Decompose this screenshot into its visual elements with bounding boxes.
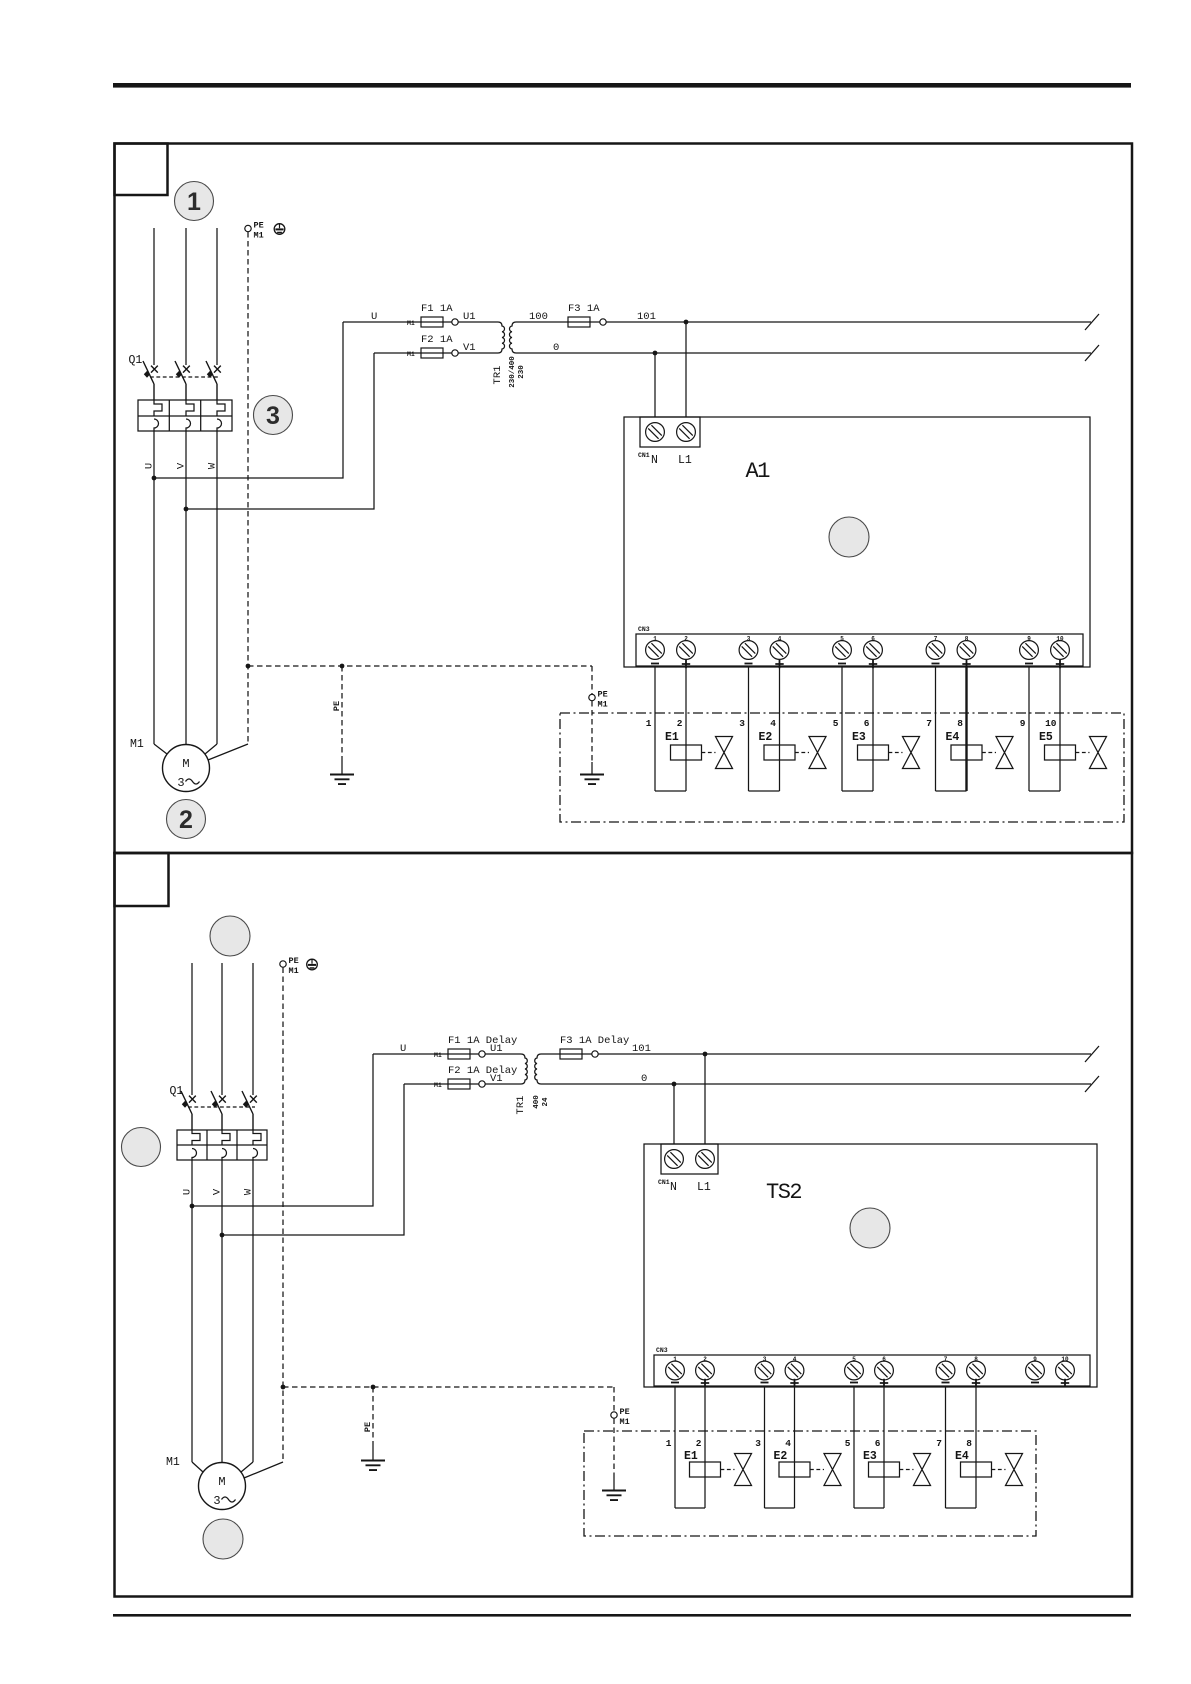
node U tap <box>152 476 157 481</box>
wire PE below node dashed <box>591 701 593 762</box>
wire terminal 6 drop <box>883 1386 885 1508</box>
TS2 supply terminal block <box>661 1144 718 1174</box>
svg-text:F2 1A Delay: F2 1A Delay <box>448 1065 517 1077</box>
svg-text:10: 10 <box>1061 1356 1069 1363</box>
wire motor lead 1 <box>192 1462 203 1472</box>
terminal 7 screw <box>926 636 945 664</box>
wire phase L1 lower <box>191 1160 193 1462</box>
ground symbol PE <box>361 1461 385 1471</box>
svg-text:0: 0 <box>553 342 559 354</box>
wire terminal 8 drop <box>975 1386 977 1508</box>
node V tap <box>220 1233 225 1238</box>
svg-text:7: 7 <box>936 1438 942 1449</box>
page bottom rule <box>113 1614 1131 1617</box>
terminal 1 screw <box>666 1356 685 1383</box>
valve E3 <box>900 1454 931 1486</box>
valve E1 <box>702 737 733 769</box>
svg-text:5: 5 <box>833 718 839 729</box>
svg-text:V1: V1 <box>463 342 476 354</box>
terminal N screw <box>646 423 665 442</box>
svg-text:3: 3 <box>177 776 184 790</box>
wire motor lead 3 <box>205 744 217 754</box>
terminal 5 screw <box>845 1356 864 1383</box>
wire motor lead 3 <box>241 1462 253 1472</box>
svg-text:M1: M1 <box>130 738 144 751</box>
svg-text:3: 3 <box>739 718 745 729</box>
terminal after F3 <box>600 319 606 325</box>
relay E5 <box>1029 731 1076 791</box>
wire PE ground stub <box>591 762 593 774</box>
svg-text:E4: E4 <box>955 1450 969 1463</box>
svg-text:9: 9 <box>1033 1356 1037 1363</box>
terminal 5 screw <box>833 636 852 664</box>
terminal after F3 <box>592 1051 598 1057</box>
svg-text:8: 8 <box>957 718 963 729</box>
node PE M1 valves <box>611 1407 630 1427</box>
wire PE below node dashed <box>613 1419 615 1479</box>
svg-text:M1: M1 <box>407 351 415 358</box>
svg-text:3: 3 <box>747 636 751 643</box>
wire PE dashed vertical <box>282 968 284 1463</box>
svg-text:10: 10 <box>1045 718 1057 729</box>
wire PE drop dashed <box>372 1387 374 1445</box>
fuse F1 1A <box>421 303 453 327</box>
breaker Q1 pole 1 <box>143 361 158 400</box>
svg-text:N: N <box>670 1181 677 1194</box>
terminal 8 screw <box>957 636 976 669</box>
controller TS2 box <box>644 1144 1097 1387</box>
svg-text:Q1: Q1 <box>129 354 143 367</box>
A1 supply terminal block <box>640 417 700 447</box>
svg-text:1: 1 <box>646 718 652 729</box>
svg-text:101: 101 <box>632 1043 651 1055</box>
overload element 1 <box>192 1130 200 1161</box>
title corner box 1 <box>115 144 168 196</box>
terminal 6 screw <box>875 1356 894 1387</box>
svg-text:F3 1A Delay: F3 1A Delay <box>560 1035 629 1047</box>
svg-text:PE: PE <box>363 1422 373 1432</box>
wire PE dashed horizontal <box>248 665 592 667</box>
motor M1 <box>163 745 210 792</box>
svg-text:U1: U1 <box>490 1043 503 1055</box>
callout circle blank top <box>210 916 250 956</box>
overload element 2 <box>222 1130 230 1161</box>
node 101 junction <box>703 1052 708 1057</box>
svg-text:CN3: CN3 <box>638 626 650 633</box>
svg-text:8: 8 <box>966 1438 972 1449</box>
terminal U1 <box>479 1043 503 1057</box>
overload element 2 <box>186 400 194 431</box>
svg-text:230/400: 230/400 <box>509 356 517 388</box>
terminal U1 <box>452 311 476 325</box>
svg-text:7: 7 <box>944 1356 948 1363</box>
wire terminal 9 drop <box>1028 666 1030 791</box>
svg-text:230: 230 <box>518 365 526 379</box>
svg-text:E2: E2 <box>759 731 773 744</box>
sheet frame 2 <box>115 853 1133 1597</box>
wire N drop to A1 <box>654 353 656 417</box>
svg-text:E2: E2 <box>774 1450 788 1463</box>
svg-text:U: U <box>400 1043 406 1055</box>
svg-text:4: 4 <box>770 718 776 729</box>
terminal N screw <box>665 1150 684 1169</box>
svg-text:M1: M1 <box>598 700 608 710</box>
relay E1 <box>655 731 702 791</box>
svg-text:E4: E4 <box>946 731 960 744</box>
wire phase L3 top <box>252 963 254 1095</box>
svg-text:6: 6 <box>871 636 875 643</box>
terminal 4 screw <box>770 636 789 669</box>
svg-text:A1: A1 <box>746 459 771 484</box>
TS2 output terminal strip <box>654 1355 1090 1386</box>
svg-text:M: M <box>218 1475 225 1489</box>
relay E2 <box>749 731 796 791</box>
wire phase L1 top <box>153 228 155 365</box>
svg-text:10: 10 <box>1056 636 1064 643</box>
terminal 3 screw <box>755 1356 774 1383</box>
svg-text:M1: M1 <box>620 1417 630 1427</box>
fuse F1 1A Delay <box>448 1035 517 1059</box>
terminal 2 screw <box>677 636 696 669</box>
svg-text:5: 5 <box>845 1438 851 1449</box>
wire U tap <box>192 1054 373 1206</box>
knob circle A1 <box>829 517 869 557</box>
svg-text:3: 3 <box>763 1356 767 1363</box>
fuse F2 1A Delay <box>448 1065 517 1089</box>
svg-text:8: 8 <box>965 636 969 643</box>
svg-text:L1: L1 <box>697 1181 711 1194</box>
wire terminal 3 drop <box>748 666 750 791</box>
wire terminal 5 drop <box>853 1386 855 1508</box>
terminal 6 screw <box>864 636 883 669</box>
svg-text:PE: PE <box>598 690 608 700</box>
svg-text:CN1: CN1 <box>658 1179 670 1186</box>
svg-text:0: 0 <box>641 1073 647 1085</box>
terminal 3 screw <box>739 636 758 664</box>
breaker Q1 pole 2 <box>175 361 190 400</box>
terminal 2 screw <box>696 1356 715 1387</box>
overload element 3 <box>253 1130 261 1161</box>
wire terminal 1 drop <box>654 666 656 791</box>
node PE M1 valves <box>589 690 608 710</box>
earth symbol top <box>274 224 285 235</box>
page top rule <box>113 83 1131 88</box>
relay E4 <box>946 1450 992 1508</box>
wire V to fuse F2 <box>404 1083 521 1085</box>
valve enclosure dash-dot box <box>584 1431 1036 1536</box>
svg-text:M: M <box>182 757 189 771</box>
svg-text:6: 6 <box>864 718 870 729</box>
wire phase L2 lower <box>185 431 187 745</box>
svg-text:2: 2 <box>696 1438 702 1449</box>
node 101 junction <box>684 320 689 325</box>
svg-text:5: 5 <box>840 636 844 643</box>
terminal 10 screw <box>1056 1356 1075 1387</box>
svg-text:400: 400 <box>533 1095 541 1109</box>
relay E3 <box>842 731 889 791</box>
wire motor PE lead <box>208 744 248 760</box>
break mark 101 <box>1085 1046 1099 1062</box>
node PE M1 <box>245 221 264 241</box>
svg-text:CN1: CN1 <box>638 452 650 459</box>
wire phase L3 lower <box>252 1160 254 1462</box>
fuse F2 1A <box>421 334 453 358</box>
breaker mechanical link <box>188 1106 255 1108</box>
svg-text:E5: E5 <box>1039 731 1053 744</box>
svg-text:E3: E3 <box>852 731 866 744</box>
node PE junction 1 <box>246 664 251 669</box>
motor M1 <box>199 1463 246 1510</box>
overload relay block <box>177 1130 267 1160</box>
svg-text:2: 2 <box>703 1356 707 1363</box>
svg-text:PE: PE <box>289 956 299 966</box>
svg-text:N: N <box>651 454 658 467</box>
wire V tap <box>186 353 374 509</box>
svg-text:7: 7 <box>934 636 938 643</box>
breaker Q1 pole 3 <box>206 361 221 400</box>
svg-text:F3 1A: F3 1A <box>568 303 600 315</box>
svg-text:L1: L1 <box>678 454 692 467</box>
wire PE dashed horizontal <box>283 1386 614 1388</box>
svg-text:E1: E1 <box>684 1450 698 1463</box>
svg-text:V1: V1 <box>490 1073 503 1085</box>
svg-text:1: 1 <box>653 636 657 643</box>
terminal 8 screw <box>967 1356 986 1387</box>
terminal 4 screw <box>785 1356 804 1387</box>
valve E4 <box>992 1454 1023 1486</box>
overload relay block <box>138 400 232 431</box>
controller A1 box <box>624 417 1090 667</box>
svg-text:U1: U1 <box>463 311 476 323</box>
node PE M1 <box>280 956 299 976</box>
svg-text:F1 1A: F1 1A <box>421 303 453 315</box>
terminal V1 <box>452 342 476 356</box>
break mark 0 <box>1085 1076 1099 1092</box>
wire terminal 4 drop <box>794 1386 796 1508</box>
ground symbol PE <box>330 775 354 785</box>
valve E5 <box>1076 737 1107 769</box>
valve enclosure dash-dot box <box>560 713 1124 822</box>
relay E3 <box>854 1450 900 1508</box>
wire phase L1 top <box>191 963 193 1095</box>
svg-text:3: 3 <box>755 1438 761 1449</box>
wire phase L1 lower <box>153 431 155 744</box>
svg-text:2: 2 <box>684 636 688 643</box>
svg-text:PE: PE <box>254 221 264 231</box>
transformer TR1 primary <box>498 322 505 353</box>
terminal 9 screw <box>1020 636 1039 664</box>
wire PE to valves dashed <box>591 666 593 694</box>
wire terminal 1 drop <box>674 1386 676 1508</box>
wire N drop to TS2 <box>673 1084 675 1144</box>
svg-text:8: 8 <box>974 1356 978 1363</box>
valve E2 <box>795 737 826 769</box>
svg-text:3: 3 <box>213 1494 220 1508</box>
svg-text:E3: E3 <box>863 1450 877 1463</box>
wire terminal 6 drop <box>872 666 874 791</box>
valve E2 <box>810 1454 841 1486</box>
svg-text:F2 1A: F2 1A <box>421 334 453 346</box>
relay E2 <box>765 1450 811 1508</box>
callout circle blank left <box>122 1128 161 1167</box>
callout circle 3 <box>254 396 293 435</box>
breaker Q1 pole 1 <box>181 1091 196 1130</box>
svg-text:1: 1 <box>673 1356 677 1363</box>
svg-text:9: 9 <box>1027 636 1031 643</box>
overload element 1 <box>154 400 162 431</box>
wire phase L2 top <box>185 228 187 365</box>
svg-text:M1: M1 <box>166 1456 180 1469</box>
breaker Q1 pole 2 <box>211 1091 226 1130</box>
svg-text:101: 101 <box>637 311 656 323</box>
svg-text:CN3: CN3 <box>656 1347 668 1354</box>
node U tap <box>190 1204 195 1209</box>
ground symbol valves <box>580 775 604 785</box>
terminal 7 screw <box>936 1356 955 1383</box>
node PE junction 2 <box>371 1385 376 1390</box>
callout circle 2 <box>167 800 206 839</box>
svg-text:TR1: TR1 <box>515 1096 527 1115</box>
wire 0 <box>516 352 1091 354</box>
svg-text:9: 9 <box>1020 718 1026 729</box>
transformer TR1 secondary <box>535 1054 541 1084</box>
relay E1 <box>675 1450 721 1508</box>
svg-text:M1: M1 <box>254 231 264 241</box>
valve E4 <box>982 737 1013 769</box>
transformer TR1 primary <box>521 1054 527 1084</box>
svg-text:3: 3 <box>266 402 280 430</box>
terminal L1 screw <box>677 423 696 442</box>
svg-text:5: 5 <box>852 1356 856 1363</box>
wire phase L2 top <box>221 963 223 1095</box>
svg-text:6: 6 <box>875 1438 881 1449</box>
wire PE drop solid <box>341 758 343 774</box>
svg-text:F1 1A Delay: F1 1A Delay <box>448 1035 517 1047</box>
wire V to fuse F2 <box>374 352 498 354</box>
svg-text:4: 4 <box>778 636 782 643</box>
wire terminal 2 drop <box>685 666 687 791</box>
wire terminal 10 drop <box>1059 666 1061 791</box>
svg-text:24: 24 <box>542 1097 550 1107</box>
fuse F3 1A <box>568 303 600 327</box>
svg-text:2: 2 <box>677 718 683 729</box>
svg-text:M1: M1 <box>407 320 415 327</box>
svg-text:TR1: TR1 <box>492 366 504 385</box>
wire 100/101 <box>516 321 1091 323</box>
node V tap <box>184 507 189 512</box>
svg-text:U: U <box>371 311 377 323</box>
svg-text:4: 4 <box>785 1438 791 1449</box>
wire terminal 8 drop bold <box>965 666 967 791</box>
terminal L1 screw <box>696 1150 715 1169</box>
sheet frame 1 <box>115 144 1133 854</box>
wire phase L3 lower <box>216 431 218 744</box>
callout circle 1 <box>175 182 214 221</box>
wire 0 <box>541 1083 1091 1085</box>
node PE junction 2 <box>340 664 345 669</box>
ground symbol valves <box>602 1491 626 1501</box>
breaker Q1 pole 3 <box>242 1091 257 1130</box>
wire U tap <box>154 322 343 478</box>
wire phase L3 top <box>216 228 218 365</box>
svg-text:M1: M1 <box>434 1052 442 1059</box>
title corner box 2 <box>115 853 169 906</box>
wire PE drop dashed <box>341 666 343 758</box>
wire terminal 7 drop <box>935 666 937 791</box>
svg-text:2: 2 <box>179 806 193 834</box>
wire L1 drop to TS2 <box>704 1054 706 1144</box>
svg-text:PE: PE <box>332 701 342 711</box>
svg-text:6: 6 <box>882 1356 886 1363</box>
svg-text:E1: E1 <box>665 731 679 744</box>
wire terminal 5 drop <box>841 666 843 791</box>
wire U to fuse F1 <box>343 321 498 323</box>
wire 101 <box>541 1053 1091 1055</box>
overload element 3 <box>217 400 225 431</box>
wire terminal 4 drop <box>779 666 781 791</box>
wire U to fuse F1 <box>373 1053 521 1055</box>
wire terminal 2 drop <box>704 1386 706 1508</box>
terminal 10 screw <box>1051 636 1070 669</box>
svg-text:4: 4 <box>793 1356 797 1363</box>
wire phase L2 lower <box>221 1160 223 1463</box>
wire PE ground stub <box>613 1478 615 1490</box>
breaker mechanical link <box>150 376 219 378</box>
wire V tap <box>222 1084 404 1235</box>
svg-text:M1: M1 <box>434 1082 442 1089</box>
fuse F3 1A Delay <box>560 1035 629 1059</box>
relay E4 <box>936 731 983 791</box>
knob circle TS2 <box>850 1208 890 1248</box>
break mark 101 <box>1085 314 1099 330</box>
wire motor PE lead <box>244 1462 283 1478</box>
svg-text:M1: M1 <box>289 966 299 976</box>
wire terminal 3 drop <box>764 1386 766 1508</box>
wire PE to valves dashed <box>613 1387 615 1412</box>
svg-text:7: 7 <box>926 718 932 729</box>
break mark 0 <box>1085 345 1099 361</box>
valve E1 <box>721 1454 752 1486</box>
svg-text:100: 100 <box>529 311 548 323</box>
callout circle blank bottom <box>203 1519 243 1559</box>
wire PE dashed vertical <box>247 232 249 744</box>
node PE junction 1 <box>281 1385 286 1390</box>
valve E3 <box>889 737 920 769</box>
terminal V1 <box>479 1073 503 1087</box>
wire terminal 7 drop <box>945 1386 947 1508</box>
wire motor lead 1 <box>154 744 167 754</box>
A1 output terminal strip <box>636 634 1083 666</box>
node 0 junction <box>672 1082 677 1087</box>
svg-text:1: 1 <box>666 1438 672 1449</box>
wire L1 drop to A1 <box>685 322 687 417</box>
transformer TR1 secondary <box>509 322 516 353</box>
svg-text:1: 1 <box>187 188 201 216</box>
earth symbol top <box>307 959 318 970</box>
terminal 9 screw <box>1026 1356 1045 1383</box>
svg-text:PE: PE <box>620 1407 630 1417</box>
terminal 1 screw <box>646 636 665 664</box>
node 0 junction <box>653 351 658 356</box>
svg-text:TS2: TS2 <box>766 1180 801 1205</box>
wire PE drop solid <box>372 1445 374 1460</box>
